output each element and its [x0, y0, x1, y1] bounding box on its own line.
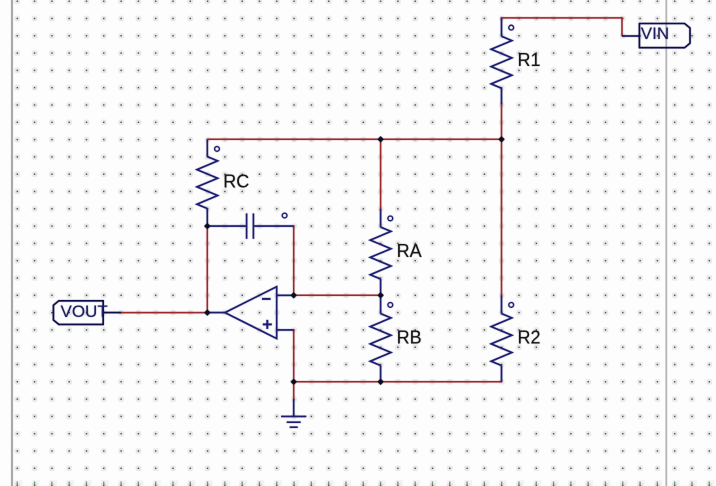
svg-text:RA: RA [397, 241, 422, 261]
resistor RA [370, 209, 392, 295]
node VOUT [53, 301, 121, 325]
wire feedback top horizontal [207, 138, 501, 140]
wire plus input down vertical [293, 330, 295, 382]
op-amp U1 [207, 287, 293, 339]
junction RA / RB [377, 292, 383, 298]
junction minus input [291, 292, 297, 298]
resistor R2 [491, 295, 514, 382]
junction top wire / R1-R2 [498, 136, 504, 142]
wire cap right to minus junction vertical [293, 226, 295, 295]
capacitor C1 [207, 213, 293, 239]
junction RC bottom / capacitor [204, 223, 210, 229]
svg-text:RC: RC [223, 171, 249, 191]
wire minus row horizontal [294, 294, 381, 296]
junction top wire / RA [377, 136, 383, 142]
svg-text:R1: R1 [518, 50, 541, 70]
wire VIN top horizontal [501, 17, 622, 19]
wire R1 bottom to R2 top vertical [501, 104, 503, 295]
junction plus / ground [291, 379, 297, 385]
resistor RB [370, 295, 392, 382]
svg-text:R2: R2 [518, 327, 541, 347]
wire RC bottom to output junction vertical [206, 226, 208, 313]
wire VOUT to output junction horizontal [121, 312, 207, 314]
resistor R1 [491, 18, 514, 105]
wire top to RA vertical [380, 139, 382, 209]
ground [281, 399, 306, 427]
junction RB bottom [377, 379, 383, 385]
node VIN [622, 24, 690, 48]
resistor RC [197, 139, 220, 226]
svg-text:VOUT: VOUT [61, 302, 108, 321]
junction op-amp output [204, 309, 210, 315]
svg-text:RB: RB [397, 327, 422, 347]
wire bottom row horizontal [294, 381, 502, 383]
right page border line [665, 0, 667, 486]
left page border line [11, 0, 13, 486]
wire ground stub vertical [293, 382, 295, 399]
wire VIN corner vertical [621, 17, 623, 36]
svg-text:VIN: VIN [641, 24, 669, 43]
